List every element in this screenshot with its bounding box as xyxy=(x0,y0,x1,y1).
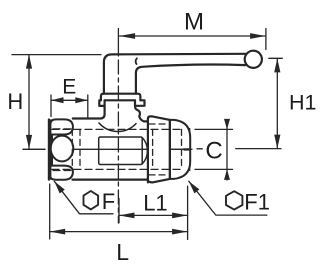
svg-text:M: M xyxy=(184,9,204,36)
dashed chamfer line bottom lobe xyxy=(53,170,72,172)
gland nut bar xyxy=(101,94,140,101)
axis centerline xyxy=(23,148,202,151)
dashed chamfer line top lobe xyxy=(53,128,72,130)
gland nut left foot xyxy=(99,100,104,106)
gland nut right foot xyxy=(135,100,145,106)
dim L arrows xyxy=(50,229,188,235)
bore dashed bottom xyxy=(52,168,182,170)
hex nut left bottom lobe xyxy=(50,166,73,180)
hex nut right black face band xyxy=(184,128,191,171)
ball side arc xyxy=(142,138,147,165)
svg-text:H1: H1 xyxy=(289,90,316,114)
svg-text:C: C xyxy=(205,137,222,164)
valve body bottom edge xyxy=(73,179,148,181)
svg-text:F1: F1 xyxy=(244,190,270,215)
ball top arc xyxy=(99,123,136,131)
dim M extension lines xyxy=(118,29,266,57)
svg-text:H: H xyxy=(7,89,23,114)
dim C xyxy=(195,120,233,181)
handle bend mark xyxy=(136,58,137,64)
hex nut right bottom lobe edge xyxy=(170,151,190,179)
hex nut right top lobe edge xyxy=(170,120,190,148)
hex nut left black face band xyxy=(49,119,53,179)
handle lever vertical arm and grip top xyxy=(104,54,246,94)
leader F arrowhead xyxy=(54,181,65,193)
stem centerline xyxy=(117,60,119,223)
svg-text:L: L xyxy=(116,239,129,265)
svg-text:E: E xyxy=(62,75,76,98)
hexagon F xyxy=(84,191,99,209)
dim H1 xyxy=(236,58,282,148)
port rectangle xyxy=(99,137,143,165)
hex nut left middle lobe xyxy=(51,136,74,162)
hex nut left face line xyxy=(48,120,50,180)
hex nut right top lobe fill xyxy=(170,120,190,148)
svg-text:F: F xyxy=(102,189,115,214)
collar xyxy=(148,116,170,182)
handle ball knob xyxy=(245,51,262,68)
dim L1 arrows xyxy=(119,213,188,219)
dim E xyxy=(51,95,88,118)
handle grip bottom and arm right edge xyxy=(136,65,246,94)
leader F xyxy=(54,181,113,214)
neck right wall / shoulder xyxy=(135,106,148,122)
dim H1 arrows xyxy=(274,58,280,148)
svg-text:L1: L1 xyxy=(143,190,167,215)
dim L xyxy=(50,184,188,239)
bore dashed top xyxy=(52,128,182,130)
gland nut bar bottom edge xyxy=(105,99,135,101)
dim H arrows xyxy=(26,55,32,149)
dim H xyxy=(12,55,101,150)
thread end dashed verticals left xyxy=(72,129,80,169)
hex nut right left edge xyxy=(169,120,171,179)
hex nut right waist line xyxy=(170,148,185,150)
hidden nut edges inside collar xyxy=(149,124,169,175)
hex nut right bottom lobe fill xyxy=(170,151,190,179)
leader F1 xyxy=(189,181,267,215)
hexagon F1 xyxy=(226,191,242,209)
dim L1 xyxy=(119,186,188,239)
leader F1 arrowhead xyxy=(189,181,200,193)
dim E arrows xyxy=(51,97,88,103)
dim M arrows xyxy=(120,33,266,39)
thread end dashed verticals right xyxy=(153,129,182,169)
dim C arrows xyxy=(224,119,230,180)
hex nut left top lobe xyxy=(50,119,73,134)
valve body top edge xyxy=(73,106,105,119)
